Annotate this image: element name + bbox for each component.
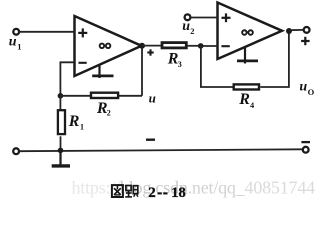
input terminal u2	[185, 14, 191, 20]
caption text 18	[171, 185, 186, 201]
ground at bottom rail	[52, 150, 70, 166]
resistor R3	[162, 43, 186, 48]
output terminal	[304, 27, 310, 33]
svg-text:u: u	[9, 35, 17, 50]
svg-text:R: R	[238, 91, 250, 108]
node A junction dot (R1 R2 minus input)	[58, 93, 64, 99]
node B junction dot (U2 minus input)	[198, 43, 204, 49]
svg-text:18: 18	[171, 185, 186, 201]
svg-text:R: R	[68, 113, 80, 130]
op-amp U2 plus input sign	[222, 13, 231, 22]
wire node B to U2 minus input	[201, 45, 218, 47]
label R4	[238, 91, 254, 110]
label R2	[96, 100, 111, 118]
op-amp U1 triangle	[75, 16, 142, 76]
U1 output junction dot	[139, 43, 145, 49]
label u1	[9, 35, 22, 52]
op-amp U2 infinity gain label	[242, 30, 253, 35]
svg-text:u: u	[299, 80, 307, 95]
op-amp U2 minus input sign	[221, 45, 229, 47]
svg-text:1: 1	[80, 123, 84, 132]
resistor R1	[58, 110, 65, 134]
wire R1 to bottom rail	[60, 136, 62, 150]
wire u2 to U2 plus input	[191, 17, 218, 19]
caption glyph ti (title)	[125, 186, 138, 198]
bottom-left terminal	[13, 148, 19, 154]
caption dashes	[158, 192, 168, 194]
wire U2 output to terminal	[289, 29, 303, 31]
label R1	[68, 113, 84, 132]
wire R2 to output riser	[119, 95, 142, 97]
svg-text:2: 2	[190, 26, 194, 36]
caption glyph tu (figure)	[112, 185, 123, 197]
resistor R2	[91, 93, 118, 98]
ground under U2	[237, 47, 258, 64]
bottom rail junction dot	[58, 148, 64, 154]
watermark text	[72, 177, 316, 197]
svg-text:https://blog.csdn.net/qq_40851: https://blog.csdn.net/qq_40851744	[72, 177, 316, 197]
op-amp U1 plus input sign	[78, 28, 87, 37]
bottom-right terminal	[303, 147, 309, 153]
svg-text:2: 2	[148, 185, 156, 201]
wire riser to U1 output	[141, 46, 143, 96]
wire R3 to node B	[188, 45, 201, 47]
wire R4 to U2 output riser	[260, 31, 289, 87]
bottom rail wire	[20, 149, 303, 151]
wire node B down to R4	[201, 46, 233, 87]
plus sign at U1 output	[147, 49, 153, 55]
svg-text:2: 2	[107, 108, 111, 117]
ground under U1	[92, 64, 113, 78]
wire node A to R2	[60, 95, 90, 97]
op-amp U1 infinity gain label	[100, 44, 111, 49]
caption text 2	[148, 185, 156, 201]
label u2	[182, 19, 194, 36]
wire node A to R1	[59, 96, 61, 110]
op-amp U1 minus input sign	[79, 62, 87, 64]
svg-text:3: 3	[178, 60, 182, 69]
svg-text:1: 1	[17, 41, 21, 51]
wire u1 to U1 plus input	[20, 31, 75, 33]
minus sign above bottom rail	[146, 138, 155, 140]
svg-text:u: u	[149, 90, 156, 105]
op-amp U2 triangle	[218, 3, 283, 60]
plus sign at output terminal	[301, 37, 310, 45]
wire U1 output to R3	[142, 45, 161, 47]
label u (node between R2 and U1 output)	[149, 90, 156, 105]
minus sign above bottom-right terminal	[301, 141, 310, 143]
resistor R4	[234, 84, 259, 89]
label uO	[299, 80, 314, 97]
wire U1 minus input	[60, 62, 74, 96]
svg-text:4: 4	[250, 101, 254, 110]
svg-text:O: O	[308, 87, 315, 97]
svg-text:u: u	[182, 19, 190, 34]
input terminal u1	[13, 29, 19, 35]
label R3	[167, 50, 182, 69]
U2 output junction dot	[286, 28, 292, 34]
